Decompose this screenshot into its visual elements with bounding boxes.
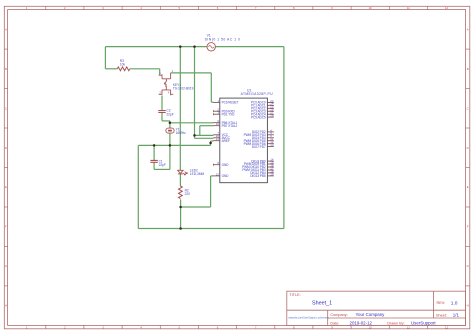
wire RESET to pin 1	[211, 101, 213, 103]
svg-text:1/1: 1/1	[453, 313, 460, 318]
KEY1 pin numbers	[159, 70, 173, 95]
svg-text:UserSupport: UserSupport	[411, 321, 436, 326]
wire AVCC drop	[194, 135, 196, 138]
svg-text:10k: 10k	[120, 63, 126, 67]
LED2 labels	[190, 168, 205, 176]
wire bottom rail	[138, 228, 284, 230]
svg-text:C: C	[467, 106, 469, 110]
wire C1 bottom riser	[153, 162, 155, 169]
svg-text:11: 11	[407, 325, 410, 329]
U1 pin 12 PWM DIG6 PD6	[244, 140, 274, 146]
svg-text:C: C	[5, 106, 7, 110]
svg-text:F: F	[467, 225, 469, 229]
svg-text:Sheet:: Sheet:	[436, 313, 447, 317]
wire left drop to R3	[104, 47, 106, 69]
svg-text:H: H	[5, 304, 7, 308]
U1 pin 7 VCC	[213, 131, 229, 137]
U1 pin 3 PD1 TXD	[213, 111, 235, 117]
Y1 labels	[176, 128, 187, 136]
wire VCC feed vertical	[194, 47, 196, 136]
wire LED to R2	[179, 174, 181, 186]
U1 pin 24 PC1 ADC1	[251, 102, 274, 108]
wire AREF riser	[210, 141, 212, 145]
svg-text:SIN(0 1 50 AC 1 0: SIN(0 1 50 AC 1 0	[205, 38, 241, 42]
capacitor C1	[150, 160, 157, 162]
wire right loop vertical	[283, 47, 285, 229]
capacitor C2	[158, 111, 165, 113]
wire XTAL2 drop	[199, 126, 201, 136]
wire top rail	[105, 46, 284, 48]
svg-text:D: D	[467, 146, 469, 150]
op-amp U1 body (ATMEGA328P-PU)	[220, 98, 268, 183]
svg-text:GND: GND	[222, 163, 230, 167]
svg-text:G: G	[467, 264, 469, 268]
svg-text:28: 28	[270, 114, 274, 118]
svg-text:21: 21	[216, 137, 220, 141]
svg-text:12: 12	[445, 6, 449, 10]
wire C2 bottom jog down	[161, 113, 163, 121]
junction bottom rail node	[179, 227, 182, 230]
svg-text:22: 22	[216, 172, 220, 176]
wire LED feed vertical	[179, 47, 181, 171]
svg-text:DIG13 PB5: DIG13 PB5	[250, 174, 266, 178]
junction XTAL1 node	[169, 122, 172, 125]
pushbutton KEY1	[159, 73, 174, 95]
svg-text:10: 10	[369, 325, 373, 329]
svg-text:220: 220	[185, 192, 191, 196]
svg-text:16MHz: 16MHz	[176, 131, 187, 135]
svg-text:A: A	[5, 27, 7, 31]
svg-text:E: E	[5, 185, 7, 189]
wire drop to KEY1 pin1	[159, 69, 161, 75]
svg-text:G: G	[5, 264, 7, 268]
svg-text:easyeda.com/UserSupport_schema: easyeda.com/UserSupport_schematic	[288, 317, 329, 320]
U1 pin 26 PC3 ADC3	[251, 108, 274, 114]
wire to C1 bottom horizontal	[154, 168, 170, 170]
U1 pin 1 PC6 RESET	[213, 99, 238, 105]
U1 pin 27 PC4 ADC4	[251, 111, 274, 117]
U1 pin 16 PWM DIG10 PB2	[242, 163, 274, 169]
svg-text:22pF: 22pF	[159, 163, 166, 167]
U1 pin 6 DIG4 PD4	[252, 134, 274, 140]
junction AREF node	[209, 142, 212, 145]
U1 pin 4 DIG2 PD2	[252, 128, 274, 134]
U1 pin 8 GND	[213, 161, 229, 167]
crystal Y1	[166, 128, 174, 133]
svg-text:E: E	[467, 185, 469, 189]
U1 pin 15 PWM DIG9 PB1	[244, 160, 274, 166]
U1 pin 23 PC0 ADC0	[251, 99, 274, 105]
KEY1 labels	[173, 83, 194, 91]
wire R2 bottom lead	[180, 199, 182, 207]
U1 pin 11 PWM DIG5 PD5	[244, 137, 274, 143]
svg-text:B: B	[5, 67, 7, 71]
U1 pin 28 PC5 ADC5	[251, 114, 274, 120]
R3 labels	[120, 59, 126, 67]
wire GND to pin 22 stub	[211, 175, 214, 177]
svg-text:PC5 ADC5: PC5 ADC5	[251, 115, 266, 119]
wire C2 jog right	[162, 120, 170, 122]
svg-text:PC6 RESET: PC6 RESET	[222, 101, 239, 105]
svg-text:F: F	[5, 225, 7, 229]
U1 pin 13 DIG7 PD7	[252, 143, 274, 149]
svg-text:LED-3MM: LED-3MM	[190, 172, 205, 176]
wire RESET vertical	[210, 73, 212, 102]
wire jog to XTAL1 node	[169, 121, 171, 123]
R2 labels	[185, 188, 191, 196]
U1 pin 5 PWM DIG3 PD3	[244, 131, 274, 137]
svg-text:Company:: Company:	[330, 313, 347, 317]
svg-text:13: 13	[270, 143, 274, 147]
U1 pin 19 DIG13 PB5	[250, 172, 274, 178]
svg-text:AREF: AREF	[222, 139, 230, 143]
U1 pin 22 GND	[213, 172, 229, 178]
U1 pin 20 AVCC	[213, 134, 230, 140]
U1 pin 21 AREF	[213, 137, 230, 143]
U1 pin 9 PB6 XTAL1	[213, 119, 237, 125]
C2 labels	[166, 109, 173, 117]
wire Y1 bottom vertical	[169, 133, 171, 169]
svg-text:GND: GND	[222, 174, 230, 178]
svg-text:1.0: 1.0	[451, 300, 458, 306]
svg-text:V1: V1	[207, 33, 211, 37]
svg-text:Date:: Date:	[330, 322, 339, 326]
C1 labels	[159, 160, 166, 168]
svg-text:A: A	[467, 27, 469, 31]
wire KEY1 pin3 to C2	[161, 96, 163, 111]
U1 pin 14 DIG 8 PB0	[251, 158, 274, 164]
wire left loop vertical	[137, 145, 139, 228]
U1 pin 17 PWM DIG11 PB3	[242, 166, 274, 172]
LED LED2	[178, 170, 188, 175]
wire XTAL2 horizontal	[200, 125, 214, 127]
svg-text:PB7 XTAL2: PB7 XTAL2	[222, 124, 238, 128]
svg-text:11: 11	[407, 6, 410, 10]
svg-text:DIG7 PD7: DIG7 PD7	[252, 145, 266, 149]
svg-text:22pF: 22pF	[166, 112, 173, 116]
wire AREF to pin 21	[211, 140, 214, 142]
voltage source V1	[207, 43, 215, 51]
svg-text:ATMEGA328P-PU: ATMEGA328P-PU	[241, 92, 274, 96]
U1 pin 25 PC2 ADC2	[251, 105, 274, 111]
resistor R3	[117, 67, 130, 71]
wire C1 top riser	[153, 145, 155, 160]
wire GND horizontal	[181, 206, 211, 208]
svg-text:TITLE:: TITLE:	[289, 293, 300, 297]
svg-text:10: 10	[216, 122, 220, 126]
wire R2 to bottom rail	[180, 207, 182, 229]
wire KEY1 pin2 to RESET run	[171, 72, 212, 74]
U1 pin 10 PB7 XTAL2	[213, 122, 237, 128]
junction top-VCC feed	[193, 45, 196, 48]
svg-text:2019-02-12: 2019-02-12	[350, 321, 373, 326]
svg-text:10: 10	[369, 6, 373, 10]
wire AVCC run	[195, 137, 214, 139]
svg-text:D: D	[5, 146, 7, 150]
junction top-LED feed	[179, 45, 182, 48]
U1 pin 18 DIG12 PB4	[250, 169, 274, 175]
svg-text:REV:: REV:	[437, 301, 446, 305]
svg-text:H: H	[467, 304, 469, 308]
svg-text:Drawn By:: Drawn By:	[387, 322, 405, 326]
resistor R2	[178, 186, 182, 199]
svg-text:Your Company: Your Company	[356, 312, 386, 317]
wire XTAL1 run	[170, 122, 214, 124]
svg-text:12: 12	[445, 325, 449, 329]
wire GND vertical to pin 22	[210, 176, 212, 207]
junction VCC node	[193, 134, 196, 137]
svg-text:19: 19	[270, 172, 274, 176]
wire R3 right lead	[130, 68, 160, 70]
junction C1 top node	[153, 144, 156, 147]
wire VCC run	[195, 134, 214, 136]
U1 pin 2 PD0 RXD	[213, 108, 235, 114]
title block frame	[287, 291, 466, 325]
title block texts	[288, 293, 459, 326]
svg-text:B: B	[467, 67, 469, 71]
svg-text:TS-1102-B019: TS-1102-B019	[173, 87, 194, 91]
junction R2 GND node	[179, 206, 182, 209]
wire AREF long run	[138, 144, 210, 146]
wire node to Y1 top	[169, 123, 171, 128]
svg-text:Sheet_1: Sheet_1	[312, 301, 332, 307]
wire R3 left lead	[105, 68, 117, 70]
U1 reference labels	[241, 88, 274, 96]
junction Y1 bottom node	[169, 144, 172, 147]
svg-text:PD1 TXD: PD1 TXD	[222, 112, 236, 116]
